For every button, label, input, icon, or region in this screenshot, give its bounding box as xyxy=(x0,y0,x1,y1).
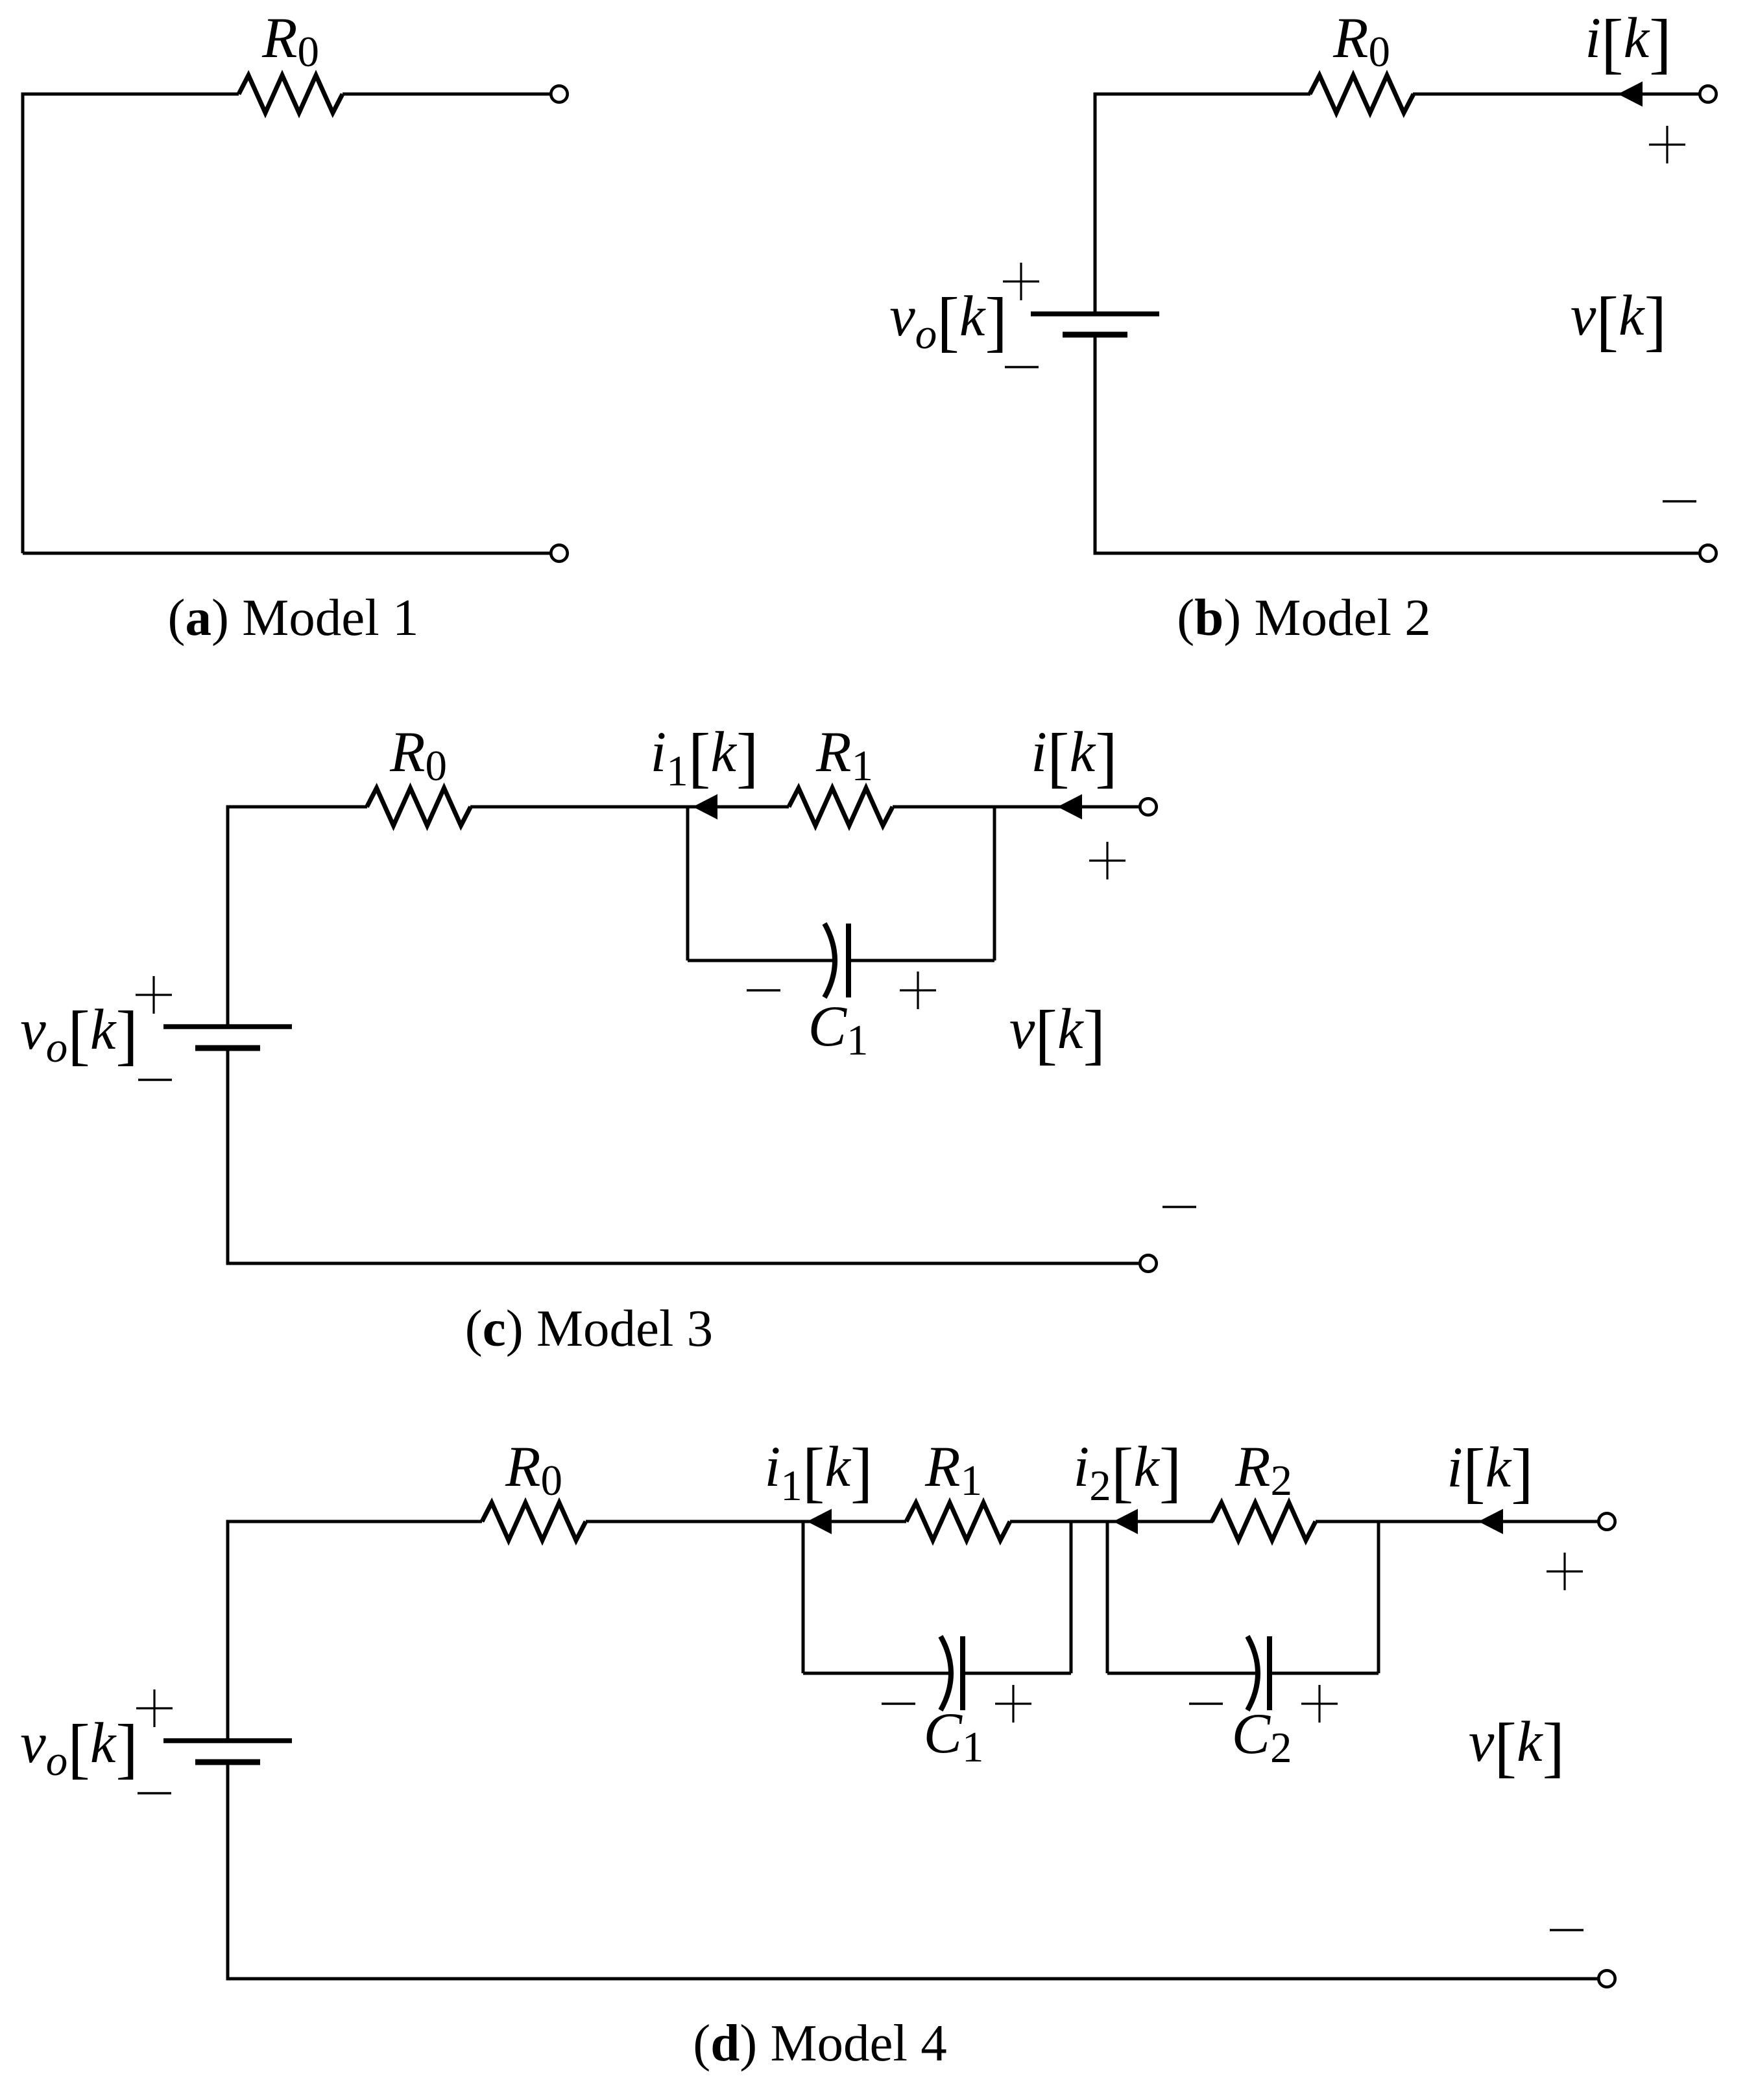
battery (voltage source) vo[k] (Model 4) xyxy=(163,1741,292,1762)
wire: Model 4 box1 bottom left of C1 xyxy=(803,1672,950,1675)
terminal: Model 3 bottom-right port xyxy=(1140,1255,1156,1271)
wire: Model 3 top wire from R1 to node B xyxy=(893,805,994,809)
plus sign at C2 (Model 4) xyxy=(1301,1685,1338,1723)
svg-text:v[k]: v[k] xyxy=(1571,283,1667,358)
minus sign of v[k] (Model 4) xyxy=(1550,1929,1583,1931)
svg-text:(d) Model 4: (d) Model 4 xyxy=(693,2014,947,2072)
svg-text:R0: R0 xyxy=(261,6,319,76)
wire: Model 3 left vertical below battery and bottom wire xyxy=(228,1051,1140,1263)
wire: Model 4 box1 bottom right of C1 xyxy=(963,1672,1071,1675)
terminal: Model 1 bottom-right port xyxy=(551,545,567,561)
arrow: current i[k] into Model 3 xyxy=(1057,794,1082,820)
arrow: current i1[k] (Model 3) xyxy=(693,794,717,820)
wire: Model 1 bottom wire xyxy=(23,552,551,555)
minus sign at battery (Model 3) xyxy=(138,1079,172,1080)
svg-text:i1[k]: i1[k] xyxy=(764,1435,873,1510)
svg-text:(b) Model 2: (b) Model 2 xyxy=(1177,588,1431,647)
svg-text:R1: R1 xyxy=(815,721,873,790)
resistor R0 (Model 1) xyxy=(239,75,343,113)
plus sign of v[k] (Model 3) xyxy=(1089,842,1126,879)
terminal: Model 3 top-right port xyxy=(1140,798,1156,815)
svg-text:R0: R0 xyxy=(505,1435,562,1505)
wire: Model 4 top wire from R0 to node A xyxy=(586,1520,803,1523)
svg-text:i2[k]: i2[k] xyxy=(1073,1435,1181,1510)
minus sign at C1 (Model 4) xyxy=(882,1702,915,1704)
terminal: Model 1 top-right port xyxy=(551,86,567,102)
wire: Model 3 box bottom left of C1 xyxy=(688,959,834,962)
plus sign of v[k] (Model 4) xyxy=(1547,1553,1583,1590)
capacitor C2 (Model 4) xyxy=(1247,1636,1270,1710)
plus sign at battery (Model 4) xyxy=(136,1689,173,1727)
resistor R1 (Model 3) xyxy=(789,788,893,826)
wire: Model 3 top wire from R0 to node A xyxy=(470,805,688,809)
wire: Model 3 box bottom right of C1 xyxy=(849,959,994,962)
wire: Model 4 top wire from R2 to node C xyxy=(1316,1520,1379,1523)
svg-text:R0: R0 xyxy=(389,721,447,790)
plus sign at battery (Model 2) xyxy=(1003,263,1039,300)
wire: Model 4 box2 right vertical at node C xyxy=(1377,1521,1380,1673)
battery (voltage source) vo[k] (Model 2) xyxy=(1031,314,1159,335)
terminal: Model 2 top-right port xyxy=(1700,86,1716,102)
svg-text:R1: R1 xyxy=(924,1435,982,1505)
wire: Model 4 box2 bottom right of C2 xyxy=(1270,1672,1379,1675)
wire: Model 3 parallel-box right vertical at node B xyxy=(993,807,996,961)
resistor R1 (Model 4) xyxy=(906,1503,1010,1540)
wire: Model 3 top wire node B to port xyxy=(994,805,1140,809)
plus sign of v[k] (Model 2) xyxy=(1649,126,1685,163)
wire: Model 2 left vertical below battery and bottom wire xyxy=(1095,337,1700,553)
wire: Model 3 parallel-box left vertical at node A xyxy=(686,807,690,961)
svg-text:C1: C1 xyxy=(808,995,869,1064)
arrow: current i[k] into Model 2 xyxy=(1618,82,1643,107)
wire: Model 4 top wire from R1 to node B xyxy=(1010,1520,1107,1523)
wire: Model 3 top wire left of R0 xyxy=(228,807,367,1025)
minus sign at C2 (Model 4) xyxy=(1189,1702,1223,1704)
wire: Model 4 top wire left of R0 xyxy=(228,1521,482,1739)
wire: Model 1 top wire left of R0 and left vertical xyxy=(23,94,239,553)
capacitor C1 (Model 3) xyxy=(825,924,849,997)
minus sign of v[k] (Model 2) xyxy=(1663,500,1696,502)
svg-text:i[k]: i[k] xyxy=(1031,720,1118,794)
minus sign at battery (Model 4) xyxy=(138,1792,171,1794)
terminal: Model 2 bottom-right port xyxy=(1700,545,1716,561)
wire: Model 4 top wire node A to R1 xyxy=(803,1520,906,1523)
svg-text:i1[k]: i1[k] xyxy=(650,720,758,795)
svg-text:vo[k]: vo[k] xyxy=(20,997,138,1072)
wire: Model 4 left vertical below battery and bottom wire xyxy=(228,1765,1599,1979)
plus sign at C1 (Model 4) xyxy=(995,1685,1031,1723)
svg-text:(c) Model 3: (c) Model 3 xyxy=(465,1299,713,1357)
minus sign of v[k] (Model 3) xyxy=(1162,1206,1196,1208)
svg-text:v[k]: v[k] xyxy=(1009,997,1105,1071)
wire: Model 4 box1 left vertical at node A xyxy=(802,1521,805,1673)
wire: Model 2 top wire left of R0 xyxy=(1095,94,1310,312)
wire: Model 4 top wire node C to port xyxy=(1379,1520,1599,1523)
terminal: Model 4 bottom-right port xyxy=(1598,1970,1615,1987)
resistor R0 (Model 2) xyxy=(1310,75,1414,113)
svg-text:(a) Model 1: (a) Model 1 xyxy=(168,588,419,647)
arrow: current i2[k] (Model 4) xyxy=(1113,1509,1138,1534)
svg-text:R0: R0 xyxy=(1332,6,1390,76)
svg-text:v[k]: v[k] xyxy=(1469,1710,1565,1784)
svg-text:vo[k]: vo[k] xyxy=(20,1711,138,1785)
minus sign at battery (Model 2) xyxy=(1005,366,1039,368)
svg-text:C2: C2 xyxy=(1232,1702,1292,1772)
plus sign at battery (Model 3) xyxy=(136,976,172,1014)
svg-text:R2: R2 xyxy=(1234,1435,1292,1505)
wire: Model 4 top wire node B to R2 xyxy=(1107,1520,1213,1523)
svg-text:i[k]: i[k] xyxy=(1447,1435,1534,1510)
wire: Model 4 box2 bottom left of C2 xyxy=(1107,1672,1257,1675)
svg-text:i[k]: i[k] xyxy=(1585,6,1672,80)
wire: Model 3 top wire node A to R1 xyxy=(688,805,789,809)
wire: Model 2 top wire right of R0 to port xyxy=(1413,93,1700,96)
wire: Model 4 box2 left vertical at node B xyxy=(1106,1521,1109,1673)
battery (voltage source) vo[k] (Model 3) xyxy=(163,1027,292,1048)
arrow: current i[k] into Model 4 xyxy=(1478,1509,1503,1534)
arrow: current i1[k] (Model 4) xyxy=(807,1509,832,1534)
wire: Model 4 box1 right vertical xyxy=(1070,1521,1073,1673)
svg-text:vo[k]: vo[k] xyxy=(889,284,1007,359)
resistor R0 (Model 3) xyxy=(367,788,471,826)
minus sign at C1 (Model 3) xyxy=(747,989,780,991)
plus sign at C1 (Model 3) xyxy=(900,972,936,1009)
resistor R0 (Model 4) xyxy=(482,1503,586,1540)
capacitor C1 (Model 4) xyxy=(941,1636,963,1710)
resistor R2 (Model 4) xyxy=(1212,1503,1316,1540)
wire: Model 1 top wire right of R0 xyxy=(343,93,551,96)
terminal: Model 4 top-right port xyxy=(1598,1513,1615,1529)
svg-text:C1: C1 xyxy=(924,1702,984,1771)
